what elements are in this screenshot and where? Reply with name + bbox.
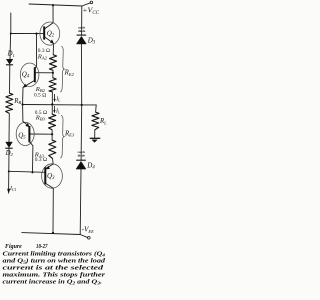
wire Q4 emitter to output tie <box>22 87 24 104</box>
svg-text:IL: IL <box>55 97 61 103</box>
wire Q2 emitter to RA2 <box>52 44 54 55</box>
wire right vertical VCC to D3 <box>81 6 83 35</box>
wire output node to D4 cathode <box>80 105 83 160</box>
wire Q3 base line <box>9 171 46 172</box>
wire IC1 tail with arrow <box>8 171 10 189</box>
catch diode D4 <box>76 160 86 169</box>
svg-text:diode: diode <box>78 29 86 33</box>
brace RE3 <box>60 115 64 158</box>
transistor Q2 <box>40 22 60 45</box>
wire -VEE terminal stub <box>80 235 88 238</box>
wire D3 anode to output node <box>80 44 82 105</box>
svg-text:RL: RL <box>99 118 107 125</box>
resistor RB3 0.5ohm <box>49 114 56 130</box>
label IL above output line <box>54 94 62 103</box>
svg-text:Current limiting transistors (: Current limiting transistors (Q4 <box>3 250 106 257</box>
svg-text:D1: D1 <box>7 51 15 58</box>
svg-text:0.3 Ω: 0.3 Ω <box>35 157 47 163</box>
brace RE2 <box>60 46 64 92</box>
svg-text:-VEE: -VEE <box>82 226 94 234</box>
svg-text:RA2: RA2 <box>37 53 48 60</box>
wire +VCC terminal stub <box>82 3 90 6</box>
svg-text:IL: IL <box>55 109 61 115</box>
svg-text:and Q5) turn on when the load: and Q5) turn on when the load <box>3 257 107 264</box>
svg-text:Q2: Q2 <box>47 29 55 38</box>
svg-text:current increase in Q2 and Q3.: current increase in Q2 and Q3. <box>3 279 103 285</box>
wire output tie to Q5 emitter <box>22 105 24 122</box>
svg-text:Figure: Figure <box>5 243 22 250</box>
wire Q5 collector vertical <box>32 146 34 173</box>
wire RL branch vertical <box>95 105 98 112</box>
svg-text:RE3: RE3 <box>64 130 75 137</box>
svg-text:D3: D3 <box>87 36 96 45</box>
wire Q5 base line <box>29 133 52 135</box>
wire RL branch horizontal <box>82 104 97 106</box>
transistor Q4 <box>20 63 39 88</box>
wire Q2 base line <box>11 32 44 34</box>
wire left bias column top <box>10 13 12 34</box>
resistor RB2 0.5ohm <box>49 78 56 92</box>
wire bottom rail -VEE <box>22 233 80 235</box>
svg-text:18-27: 18-27 <box>36 243 48 250</box>
wire left column to D1 <box>9 34 12 60</box>
wire RB2 to output <box>51 92 53 105</box>
svg-text:Q3: Q3 <box>47 172 55 181</box>
wire Q4 collector vertical <box>36 34 38 66</box>
resistor RA2 0.3ohm <box>49 55 56 71</box>
wire output line <box>23 104 82 106</box>
wire Q4 base line <box>35 72 53 74</box>
svg-text:current is at the selected: current is at the selected <box>3 265 105 271</box>
svg-text:RE2: RE2 <box>64 70 75 77</box>
svg-text:+VCC: +VCC <box>82 6 99 16</box>
arrow IC1 <box>7 189 10 194</box>
svg-text:Q4: Q4 <box>22 70 30 79</box>
svg-text:Q5: Q5 <box>18 131 26 140</box>
transistor Q5 <box>16 121 34 146</box>
wire D1 to RB <box>9 65 11 93</box>
svg-text:D2: D2 <box>5 150 14 157</box>
node -VEE terminal circle <box>88 237 91 240</box>
wire D2 to Q3 base node <box>8 149 10 172</box>
label IL below output line <box>53 106 61 115</box>
wire Q2 collector <box>52 5 54 23</box>
wire output to RB3 <box>51 104 53 114</box>
svg-text:diode: diode <box>78 153 86 157</box>
wire Q3 collector to rail <box>52 188 54 233</box>
wire RA3 to Q3 emitter <box>52 158 55 164</box>
wire RB to D2 <box>8 113 10 142</box>
svg-text:IC1: IC1 <box>9 186 17 192</box>
resistor RA3 0.3ohm <box>49 140 56 158</box>
node junction dots <box>8 4 83 234</box>
wire RB3 to node B <box>51 130 53 140</box>
catch diode D3 <box>76 35 86 44</box>
svg-text:RB: RB <box>13 98 21 105</box>
diode D2 <box>5 142 12 148</box>
resistor RB bias <box>6 93 13 113</box>
svg-text:0.5 Ω: 0.5 Ω <box>34 92 46 98</box>
wire RL to ground <box>94 130 96 138</box>
resistor RL load <box>92 112 99 130</box>
transistor Q3 <box>42 164 63 189</box>
diode D1 <box>6 59 13 65</box>
node +VCC terminal circle <box>90 1 93 4</box>
wire top rail VCC <box>29 4 82 6</box>
svg-text:D4: D4 <box>86 161 95 170</box>
ground <box>90 138 101 142</box>
wire RA2 to node A <box>52 70 54 78</box>
wire D4 anode to -VEE rail <box>79 169 82 234</box>
svg-text:maximum. This stops further: maximum. This stops further <box>3 272 106 278</box>
